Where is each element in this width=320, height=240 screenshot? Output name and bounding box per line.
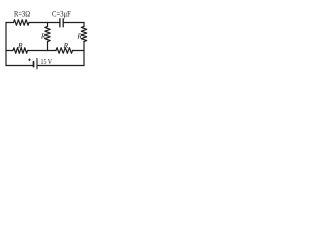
- wire top rail right segment: [63, 22, 84, 24]
- svg-text:R: R: [40, 32, 46, 41]
- resistor R (middle rail right): [56, 48, 73, 54]
- battery 15V short plate: [33, 62, 35, 67]
- svg-text:R=3Ω: R=3Ω: [14, 10, 30, 19]
- wire middle rail center segment: [28, 50, 57, 52]
- wire middle branch upper stub: [47, 23, 49, 27]
- wire middle branch lower stub: [47, 42, 49, 51]
- wire top rail left segment: [6, 22, 14, 24]
- battery 15V long plate: [36, 59, 38, 69]
- battery plus sign: [28, 59, 31, 62]
- svg-text:15 V: 15 V: [41, 57, 53, 66]
- svg-text:R: R: [76, 32, 82, 41]
- wire middle rail right stub: [73, 50, 85, 52]
- wire top rail middle segment: [29, 22, 60, 24]
- resistor R (right vertical): [81, 27, 86, 42]
- wire right side vertical upper stub: [83, 23, 85, 27]
- resistor R (middle vertical): [45, 27, 50, 42]
- wire bottom rail right segment: [37, 65, 84, 67]
- wire left side vertical: [5, 23, 7, 66]
- svg-text:C=3μF: C=3μF: [52, 10, 71, 19]
- wire bottom rail left segment: [6, 65, 34, 67]
- wire right side vertical lower segment: [83, 42, 85, 66]
- resistor R (middle rail left): [13, 48, 28, 54]
- wire middle rail left stub: [6, 50, 13, 52]
- capacitor C=3uF plates: [60, 19, 63, 27]
- svg-text:R: R: [17, 41, 23, 50]
- resistor R=3ohm (top): [14, 20, 30, 26]
- svg-text:R: R: [63, 41, 69, 50]
